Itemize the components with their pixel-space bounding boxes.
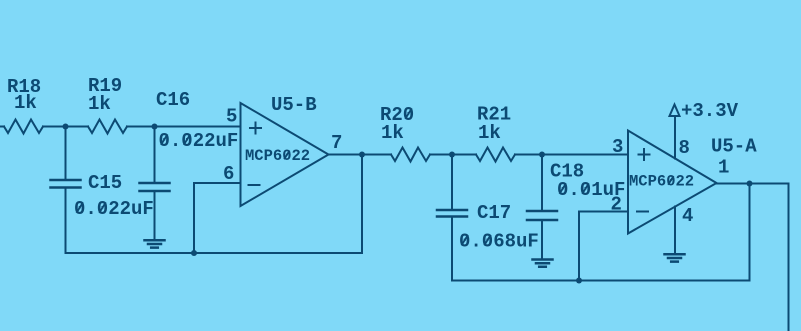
- svg-text:1k: 1k: [14, 92, 37, 114]
- svg-text:1k: 1k: [381, 122, 404, 144]
- svg-text:7: 7: [331, 132, 342, 154]
- svg-text:0.022uF: 0.022uF: [159, 130, 239, 152]
- svg-text:1k: 1k: [478, 122, 501, 144]
- svg-text:1k: 1k: [88, 93, 111, 115]
- svg-text:4: 4: [682, 205, 693, 227]
- svg-text:3: 3: [612, 136, 623, 158]
- svg-text:8: 8: [679, 137, 690, 159]
- svg-text:MCP6022: MCP6022: [245, 147, 310, 165]
- svg-text:MCP6022: MCP6022: [629, 173, 694, 191]
- svg-text:0.068uF: 0.068uF: [459, 231, 539, 253]
- svg-text:6: 6: [223, 163, 234, 185]
- svg-text:U5-B: U5-B: [271, 94, 317, 116]
- svg-text:C15: C15: [88, 172, 122, 194]
- svg-text:5: 5: [226, 106, 237, 128]
- svg-text:+3.3V: +3.3V: [681, 100, 739, 122]
- svg-text:1: 1: [718, 157, 729, 179]
- svg-text:2: 2: [611, 194, 622, 216]
- svg-text:0.022uF: 0.022uF: [74, 198, 154, 220]
- svg-text:U5-A: U5-A: [711, 136, 757, 158]
- svg-text:C16: C16: [156, 89, 190, 111]
- svg-text:C17: C17: [477, 202, 511, 224]
